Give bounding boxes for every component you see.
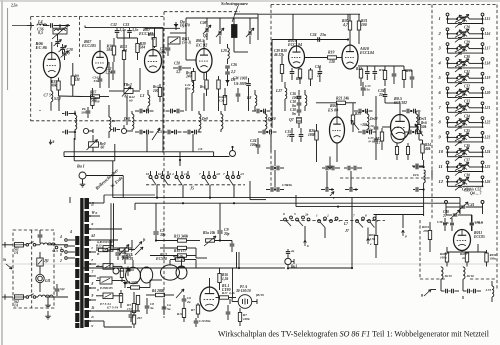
trimmer capacitor C2 xyxy=(60,47,64,49)
loop wire y214.5 xyxy=(374,214,424,216)
capacitor pair lower xyxy=(167,130,169,135)
svg-text:4: 4 xyxy=(59,235,62,239)
svg-text:c4: c4 xyxy=(184,172,188,176)
filter section 8 trimmer inductor xyxy=(457,121,469,123)
svg-text:8: 8 xyxy=(283,212,285,216)
svg-text:340k: 340k xyxy=(180,235,188,239)
wire bottom rail right xyxy=(96,310,140,312)
svg-text:R29: R29 xyxy=(296,77,302,81)
svg-text:R4 280k: R4 280k xyxy=(152,289,164,293)
resistor R7 500k xyxy=(196,305,199,314)
vertical bus x163 xyxy=(162,28,164,153)
filter section 1 trimmer capacitor xyxy=(458,22,462,24)
feedthrough column x75: capacitor lower xyxy=(65,130,67,135)
svg-text:R19: R19 xyxy=(328,51,335,55)
dashed enclosure right ladder box xyxy=(431,5,433,221)
svg-text:584: 584 xyxy=(140,46,146,50)
switch cluster A drop xyxy=(304,226,306,240)
wire xyxy=(99,40,101,51)
resistor R21 24k xyxy=(337,101,346,104)
svg-text:180k: 180k xyxy=(308,133,315,137)
filter section 12 wiring xyxy=(447,179,449,182)
capacitor C34b 100u xyxy=(256,144,261,146)
filter section 5 terminal left xyxy=(446,72,449,75)
svg-text:7: 7 xyxy=(199,172,201,176)
bottom lead xyxy=(96,320,104,322)
trimmer C40 xyxy=(453,213,458,215)
svg-text:L7: L7 xyxy=(343,222,348,226)
svg-text:L17: L17 xyxy=(484,47,491,51)
resistor R17 2k xyxy=(178,254,187,257)
svg-text:Jf1: Jf1 xyxy=(44,259,49,263)
wire xyxy=(203,40,205,49)
wire B+ risers xyxy=(131,240,133,248)
svg-text:100u: 100u xyxy=(250,143,257,147)
svg-text:R4 500k: R4 500k xyxy=(126,281,138,285)
diode St arrow xyxy=(6,264,12,269)
long bus y197.6 xyxy=(113,197,460,199)
svg-text:fB/10: fB/10 xyxy=(256,293,264,297)
capacitor gnd xyxy=(415,164,417,169)
switch S1/2 right xyxy=(55,246,58,249)
variable inductor arrow xyxy=(52,25,69,40)
neon lamp right xyxy=(121,128,126,133)
choke Dr1a xyxy=(40,243,55,245)
svg-text:9: 9 xyxy=(97,288,99,292)
dashed enclosure: lower middle xyxy=(163,300,165,318)
component Sf1 xyxy=(37,258,43,266)
capacitor C33 22 xyxy=(318,71,323,73)
wire vertical x423.6 xyxy=(423,160,425,167)
feedthrough column x109 choke Dr7 xyxy=(109,117,111,131)
filter section 1 wiring xyxy=(447,16,449,19)
capacitor C103 33n xyxy=(98,78,103,80)
svg-text:St: St xyxy=(3,258,7,262)
resistor R41 small xyxy=(406,147,409,155)
svg-text:b2: b2 xyxy=(158,172,162,176)
svg-text:171: 171 xyxy=(127,307,132,311)
filter section 3 wiring xyxy=(447,46,449,49)
inductor L27 xyxy=(285,88,287,99)
relay RG1 box xyxy=(168,37,180,44)
filter section 5 trimmer capacitor xyxy=(458,81,462,83)
rectifier 3 xyxy=(103,293,113,299)
transformer secondary winding small xyxy=(75,236,79,245)
capacitor C38b xyxy=(392,73,397,75)
svg-text:3,3o: 3,3o xyxy=(131,28,138,32)
inductor L29 xyxy=(228,48,230,59)
choke Dr11 xyxy=(416,114,418,129)
wire xyxy=(461,251,463,253)
wire bottom bus y268 to transformer xyxy=(83,267,110,269)
filter section 1 terminal right xyxy=(481,13,484,16)
wire top cluster xyxy=(186,17,258,19)
filter section 2 trimmer capacitor xyxy=(458,37,462,39)
filter section 9 terminal right xyxy=(481,132,484,135)
inductor L4 xyxy=(37,24,47,26)
dashed enclosure: bottom right box xyxy=(419,220,421,279)
wire anode R06 xyxy=(51,42,53,52)
wire xyxy=(59,95,83,98)
svg-text:ft: ft xyxy=(143,238,146,242)
svg-text:8: 8 xyxy=(365,214,367,218)
svg-text:9: 9 xyxy=(92,294,94,298)
wire x220 drop xyxy=(219,203,221,215)
svg-text:8: 8 xyxy=(92,282,94,286)
capacitor C6 2u xyxy=(182,298,187,300)
svg-text:e: e xyxy=(370,242,372,246)
feedthrough column x75: capacitor upper xyxy=(65,111,67,116)
svg-text:8: 8 xyxy=(439,120,442,125)
svg-text:L5: L5 xyxy=(157,130,162,134)
antenna input terminal xyxy=(27,25,34,27)
choke Dr1b xyxy=(38,295,53,297)
svg-text:50u: 50u xyxy=(121,251,126,255)
svg-text:+30k: +30k xyxy=(360,123,368,127)
svg-text:22o: 22o xyxy=(378,93,385,97)
capacitor C filter 50u xyxy=(115,252,120,254)
tube R011 ECC85 xyxy=(454,230,471,251)
svg-text:1M: 1M xyxy=(75,78,81,82)
svg-text:470: 470 xyxy=(422,229,428,233)
svg-text:5: 5 xyxy=(339,219,341,223)
dashed enclosure: input tuner box xyxy=(31,16,164,18)
svg-text:Wirkschaltplan des TV-Selektog: Wirkschaltplan des TV-Selektografen SO 8… xyxy=(218,329,490,339)
switch cluster A contacts xyxy=(284,218,287,221)
switch cluster B drop xyxy=(324,228,326,239)
svg-text:2t: 2t xyxy=(90,315,94,319)
capacitor C33 3,3o xyxy=(127,30,132,32)
svg-text:1,2k: 1,2k xyxy=(222,277,228,281)
selenium rectifier bridge xyxy=(100,277,112,284)
filter section 10 trimmer capacitor xyxy=(458,155,462,157)
resistor R4 500k xyxy=(131,286,140,289)
rectifier 2 xyxy=(103,264,113,270)
tube R01 ES80 xyxy=(330,117,345,143)
filter section 11 trimmer capacitor xyxy=(458,170,462,172)
svg-text:584: 584 xyxy=(107,48,113,52)
svg-text:B: B xyxy=(96,252,100,256)
dashed switch coupling line lower xyxy=(280,220,385,222)
svg-text:100: 100 xyxy=(361,23,367,27)
svg-text:4: 4 xyxy=(171,172,174,176)
connector Bu1 xyxy=(285,258,291,264)
svg-text:L24: L24 xyxy=(484,150,491,154)
tube R12 section b xyxy=(176,266,187,279)
dashed enclosure: wobbler box top xyxy=(271,4,497,6)
svg-text:9: 9 xyxy=(439,134,442,139)
svg-text:2b: 2b xyxy=(304,213,309,217)
filter section 12 trimmer inductor xyxy=(457,180,469,182)
svg-text:23n: 23n xyxy=(319,33,326,37)
capacitor C36c xyxy=(450,222,454,224)
wire meter left loop xyxy=(232,268,234,296)
dashed enclosure: crystal oscillator box xyxy=(163,12,165,300)
svg-text:2,2k: 2,2k xyxy=(228,291,235,295)
filter section 6 trimmer capacitor xyxy=(458,96,462,98)
filter section 12 terminal left xyxy=(446,176,449,179)
svg-text:5: 5 xyxy=(439,75,442,80)
potentiometer TRv2 xyxy=(124,89,133,94)
capacitor C10 0n xyxy=(297,109,302,111)
wire cathode xyxy=(58,78,60,81)
resistor R37b 500 xyxy=(91,97,94,106)
potentiometer Rv6 50k xyxy=(417,125,420,134)
resistor R034 100u xyxy=(445,253,448,262)
Schwingquarz pointer xyxy=(232,6,238,22)
svg-text:Q7: Q7 xyxy=(289,118,295,122)
filter section 3 trimmer capacitor xyxy=(458,51,462,53)
terminal b arrow xyxy=(50,140,52,145)
wire x124 down xyxy=(123,68,125,90)
capacitor pair lower xyxy=(139,130,141,135)
capacitor C36d xyxy=(470,222,474,224)
tube R07b xyxy=(145,50,162,73)
wire left lower vertical xyxy=(69,197,71,203)
svg-text:EC 86: EC 86 xyxy=(35,45,48,50)
svg-text:L26: L26 xyxy=(484,180,491,184)
svg-text:8: 8 xyxy=(97,276,99,280)
filter section 7 trimmer inductor xyxy=(457,106,469,108)
wire anode xyxy=(399,103,401,115)
svg-text:30p: 30p xyxy=(159,233,166,237)
svg-text:7: 7 xyxy=(92,270,94,274)
svg-text:100: 100 xyxy=(153,89,159,93)
resistor R17b 2.2k xyxy=(220,296,229,299)
capacitor pair xyxy=(406,109,408,114)
capacitor bottom pair 2 xyxy=(347,166,349,171)
filter section 11 terminal right xyxy=(481,161,484,164)
svg-text:C20: C20 xyxy=(219,99,225,103)
svg-text:L29: L29 xyxy=(220,49,227,53)
wire riser pair from bus to R13 row xyxy=(110,203,112,250)
capacitor C26 xyxy=(225,65,230,67)
dashed divider tuner/osc xyxy=(79,17,81,58)
svg-text:R25: R25 xyxy=(355,112,361,116)
filter section 4 terminal right xyxy=(481,58,484,61)
wire vertical run x285 xyxy=(284,104,286,111)
transistor-like circle GR xyxy=(113,268,119,274)
wire R42 column xyxy=(126,96,128,125)
svg-text:500: 500 xyxy=(95,100,100,104)
potentiometer Rv0 60 xyxy=(89,142,99,147)
capacitor C elko xyxy=(122,255,127,257)
capacitor pair xyxy=(139,109,141,114)
dashed divider mains box xyxy=(31,230,33,308)
filter section 10 terminal right xyxy=(481,146,484,149)
inductor L72 xyxy=(492,286,494,297)
svg-text:L20: L20 xyxy=(484,91,491,95)
resistor R45b xyxy=(132,315,135,324)
wire meter risers xyxy=(236,252,238,268)
svg-text:7: 7 xyxy=(353,214,355,218)
svg-text:C30: C30 xyxy=(464,55,470,59)
svg-text:R5a 10k: R5a 10k xyxy=(203,231,215,235)
svg-text:E250C85: E250C85 xyxy=(99,286,113,290)
capacitor pair lower xyxy=(408,130,410,135)
svg-text:33n: 33n xyxy=(93,79,99,83)
switch bank 1 arms xyxy=(152,178,157,185)
choke Dr15 xyxy=(441,267,443,279)
resistor R28 left xyxy=(280,65,283,74)
filter section 12 terminal right xyxy=(481,176,484,179)
svg-text:3: 3 xyxy=(438,46,442,51)
heater bus lower xyxy=(104,194,155,196)
svg-text:Dr8: Dr8 xyxy=(123,117,130,121)
rectifier E250C85 xyxy=(103,246,113,252)
svg-text:100u: 100u xyxy=(440,256,447,260)
capacitor bottom pair 1 xyxy=(325,166,327,171)
wire vertical drops mid xyxy=(336,143,338,162)
filter section 9 wiring xyxy=(447,134,449,137)
trimmer cap C25 xyxy=(248,31,250,36)
fuse Si2 1A xyxy=(15,295,24,299)
wire bus y39 xyxy=(272,39,348,41)
wire bus bottom xyxy=(110,267,285,269)
switch S1a xyxy=(26,244,29,247)
wire xyxy=(155,218,157,226)
resistor right of A010 xyxy=(359,69,362,78)
resistor R035 2n xyxy=(465,253,468,262)
svg-text:a: a xyxy=(92,222,94,226)
wire verticals from caps to line below xyxy=(146,134,148,152)
long bus y203.2 xyxy=(135,202,460,204)
trimmer C41 xyxy=(461,205,466,207)
primary tap terminals xyxy=(65,239,68,242)
svg-text:L25: L25 xyxy=(484,165,491,169)
svg-text:Q4 ... 7: Q4 ... 7 xyxy=(470,192,483,196)
antenna lead-in xyxy=(12,25,27,27)
capacitor C37 xyxy=(373,71,378,73)
resistor R24 240 xyxy=(192,72,195,81)
capacitor C8 3u xyxy=(145,305,150,307)
resistor R19 130 xyxy=(328,56,337,59)
svg-text:C7 5: C7 5 xyxy=(44,93,51,97)
filter section 2 wiring xyxy=(447,31,449,34)
wire B+ lines to right xyxy=(122,247,132,249)
svg-text:2: 2 xyxy=(59,259,62,263)
choke Dr6 xyxy=(424,170,426,183)
wire x140 down xyxy=(139,68,141,90)
scan edge lines (decorative) xyxy=(1,0,3,345)
svg-text:2a: 2a xyxy=(290,249,295,253)
svg-text:Dr10: Dr10 xyxy=(267,117,276,121)
svg-text:ECCL84: ECCL84 xyxy=(359,51,374,55)
svg-text:C08: C08 xyxy=(200,21,207,25)
resistor C20 column xyxy=(223,96,226,105)
wire bus mid xyxy=(358,65,375,67)
svg-text:E7 5-54: E7 5-54 xyxy=(106,306,118,310)
svg-text:E250 C85: E250 C85 xyxy=(99,240,114,244)
loop wire vertical x296 xyxy=(295,195,297,207)
svg-text:(5+-3): (5+-3) xyxy=(182,41,191,45)
wire anode R07b xyxy=(152,40,154,50)
svg-text:C28: C28 xyxy=(174,62,180,66)
choke Dr8 xyxy=(132,114,134,129)
transformer tap leads xyxy=(89,202,96,204)
resistor R13 340k xyxy=(178,239,187,242)
resistor Rv1 100 xyxy=(158,88,161,97)
wire top bus xyxy=(293,13,360,15)
filter section 7 terminal left xyxy=(446,102,449,105)
capacitor C16 100 xyxy=(297,95,302,97)
filter section 9 terminal left xyxy=(446,132,449,135)
svg-text:C34: C34 xyxy=(464,114,470,118)
switch cluster C drop xyxy=(367,228,369,239)
filter section 10 trimmer inductor xyxy=(457,150,469,152)
filter section 6 terminal right xyxy=(481,87,484,90)
svg-text:R13: R13 xyxy=(96,244,102,248)
variable inductor L5 coil xyxy=(55,29,66,31)
svg-text:2t: 2t xyxy=(91,306,96,310)
svg-text:3u: 3u xyxy=(149,306,154,310)
svg-text:o5: o5 xyxy=(241,172,245,176)
resistor R31 100 xyxy=(357,21,360,30)
capacitor C9 20p xyxy=(217,230,222,232)
capacitor x238 xyxy=(236,93,241,95)
tube R12 section a xyxy=(161,265,180,280)
feedthrough x351 capacitor xyxy=(349,187,351,192)
svg-text:Sf2: Sf2 xyxy=(60,287,65,291)
svg-text:C31: C31 xyxy=(464,70,470,74)
resistor R34 40k xyxy=(421,144,424,153)
svg-text:C38: C38 xyxy=(464,174,470,178)
capacitor elko pair bottom xyxy=(129,314,134,316)
svg-text:2u: 2u xyxy=(186,300,191,304)
svg-text:2,2o: 2,2o xyxy=(105,71,112,75)
svg-text:10: 10 xyxy=(439,149,444,154)
svg-text:ECC85: ECC85 xyxy=(473,235,485,239)
resistor R38 584 xyxy=(112,46,115,55)
filter section 8 terminal right xyxy=(481,117,484,120)
svg-text:g: g xyxy=(420,292,423,297)
svg-text:100k: 100k xyxy=(243,317,250,321)
svg-text:ECC181: ECC181 xyxy=(138,31,153,36)
capacitor mains bottom right xyxy=(55,288,60,290)
filter section 2 terminal left xyxy=(446,28,449,31)
mains plug terminal N xyxy=(2,296,13,298)
loop wire y206.6 xyxy=(296,206,424,208)
filter section 5 wiring xyxy=(447,75,449,78)
switch bank 4 contacts xyxy=(226,176,229,179)
svg-text:46 22k: 46 22k xyxy=(273,53,284,57)
wire x376 column xyxy=(375,96,377,126)
capacitor C36b xyxy=(365,71,370,73)
svg-text:C10 80u: C10 80u xyxy=(199,319,211,323)
svg-text:330: 330 xyxy=(80,111,86,115)
glow lamp Gl1 xyxy=(36,274,44,282)
svg-text:11o: 11o xyxy=(365,88,370,92)
svg-text:Dr9: Dr9 xyxy=(201,117,208,121)
svg-text:3,3o: 3,3o xyxy=(119,28,126,32)
capacitor C28 500u xyxy=(166,47,171,49)
capacitor C18 xyxy=(297,102,302,104)
wire bus xyxy=(145,27,180,29)
svg-text:J7: J7 xyxy=(345,229,350,233)
long horizontal bus lower xyxy=(64,156,230,158)
filter section 9 trimmer capacitor xyxy=(458,140,462,142)
tube R05b triode part xyxy=(391,127,405,143)
wire long left xyxy=(271,40,273,121)
tube R07 ECC185 xyxy=(92,51,107,73)
wire corner from crystal box xyxy=(249,181,251,200)
filter section 7 terminal right xyxy=(481,102,484,105)
transformer core xyxy=(80,198,83,328)
svg-text:6: 6 xyxy=(439,90,442,95)
filter section 5 trimmer inductor xyxy=(457,76,469,78)
switch bank 4 drop xyxy=(233,185,235,198)
filter section 3 terminal left xyxy=(446,43,449,46)
